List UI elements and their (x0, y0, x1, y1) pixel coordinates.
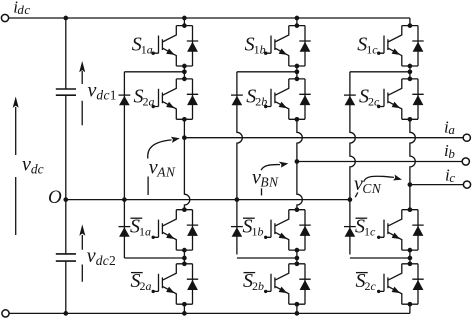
svg-text:ic: ic (445, 165, 455, 185)
svg-text:S2a: S2a (134, 85, 155, 108)
svg-text:S2b: S2b (243, 270, 264, 293)
svg-text:vdc: vdc (22, 154, 44, 177)
svg-text:O: O (48, 187, 62, 208)
svg-text:S2c: S2c (356, 270, 377, 293)
svg-text:ia: ia (444, 118, 455, 138)
svg-text:S2c: S2c (359, 85, 380, 108)
svg-text:vBN: vBN (252, 167, 279, 190)
svg-text:vdc2: vdc2 (87, 245, 116, 268)
svg-text:S1c: S1c (357, 34, 378, 57)
svg-text:idc: idc (13, 0, 30, 17)
svg-text:vAN: vAN (149, 157, 176, 180)
svg-text:S2b: S2b (246, 85, 267, 108)
svg-text:vdc1: vdc1 (88, 80, 117, 103)
svg-text:ib: ib (444, 141, 455, 161)
svg-text:S1b: S1b (245, 34, 266, 57)
svg-text:S1a: S1a (132, 34, 153, 57)
svg-text:S2a: S2a (131, 270, 152, 293)
